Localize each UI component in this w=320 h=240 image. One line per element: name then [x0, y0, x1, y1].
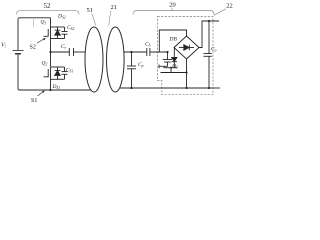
- wire left rail upper: [18, 18, 20, 20]
- node bottom rail junction: [49, 89, 51, 91]
- coil 51 (primary): [85, 27, 103, 92]
- node Cp junction: [130, 51, 132, 53]
- wire bridge right vertex to output: [199, 21, 219, 48]
- wire to Cr: [51, 51, 70, 53]
- svg-text:Cp: Cp: [138, 62, 144, 68]
- bracket 52: [17, 11, 80, 15]
- leader line 51: [92, 14, 96, 26]
- svg-text:Q1: Q1: [41, 20, 47, 26]
- node midpoint junction: [49, 51, 51, 53]
- diode D_S1: [55, 67, 61, 79]
- node output top junction: [208, 20, 210, 22]
- wire gate drive tick: [32, 19, 34, 27]
- transistor Q1 (switch S2): [44, 18, 65, 39]
- bracket 20: [133, 8, 214, 15]
- svg-text:CS2: CS2: [67, 25, 74, 31]
- svg-text:51: 51: [87, 7, 94, 14]
- leader line 21: [109, 11, 111, 26]
- svg-text:Cb: Cb: [145, 42, 151, 48]
- node output bottom junction: [208, 87, 210, 89]
- capacitor Co: [204, 21, 212, 88]
- svg-text:Co: Co: [211, 47, 217, 53]
- svg-text:22: 22: [226, 3, 233, 10]
- svg-text:S2: S2: [30, 45, 36, 51]
- transistor Q3: [159, 48, 188, 74]
- svg-text:21: 21: [111, 4, 118, 11]
- wire secondary top: [124, 51, 147, 53]
- svg-text:20: 20: [169, 2, 176, 9]
- svg-text:Vi: Vi: [1, 43, 6, 49]
- coil 21 (secondary): [107, 27, 125, 92]
- wire Q2 source to bottom rail: [50, 79, 52, 90]
- svg-text:DS1: DS1: [52, 84, 61, 90]
- svg-text:Cr: Cr: [61, 44, 67, 50]
- svg-text:DS2: DS2: [57, 13, 66, 19]
- diode D_S2: [55, 27, 61, 39]
- wire top rail: [20, 17, 51, 19]
- diode bridge DB: [174, 36, 199, 59]
- wire output bottom stub: [209, 87, 220, 89]
- wire midpoint node: [50, 39, 52, 67]
- capacitor C_S2: [62, 27, 68, 39]
- node Cp bottom junction: [130, 87, 132, 89]
- svg-text:CS1: CS1: [66, 68, 73, 74]
- svg-text:DB: DB: [170, 37, 178, 43]
- transistor Q2 (switch S1): [44, 67, 65, 79]
- battery Vi: [13, 50, 24, 52]
- capacitor Cp: [127, 52, 136, 88]
- box 20 dashed: [158, 17, 214, 95]
- leader line 22: [214, 9, 226, 16]
- svg-text:Q3: Q3: [172, 64, 178, 70]
- svg-text:Q2: Q2: [42, 61, 48, 67]
- capacitor C_S1: [62, 67, 68, 79]
- svg-text:52: 52: [44, 2, 52, 10]
- svg-text:S1: S1: [31, 98, 37, 104]
- capacitor Cb: [147, 48, 168, 56]
- node bridge bottom junction: [185, 87, 187, 89]
- wire bridge bottom vertex: [186, 59, 188, 88]
- wire bottom rail: [18, 89, 91, 91]
- wire left rail lower: [17, 55, 19, 89]
- wire secondary bottom: [120, 87, 210, 89]
- wire AC top path to bridge: [159, 30, 186, 52]
- capacitor Cr: [69, 48, 85, 56]
